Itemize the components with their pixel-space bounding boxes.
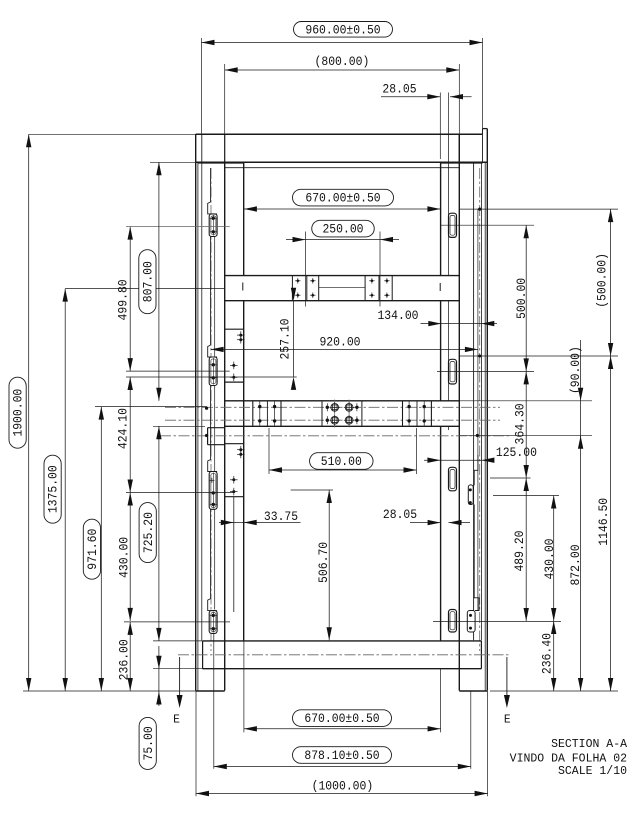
svg-text:510.00: 510.00 xyxy=(321,454,362,469)
svg-text:134.00: 134.00 xyxy=(377,308,418,323)
dimension 430.00 right xyxy=(553,496,555,622)
right post line x=448.5 xyxy=(448,134,450,275)
extension lines top xyxy=(201,38,203,134)
dimension 971.60 xyxy=(100,407,102,691)
extension lines bottom xyxy=(195,691,197,796)
dimension 28.05 top xyxy=(381,96,440,98)
svg-text:499.80: 499.80 xyxy=(116,279,131,320)
left post bracket 4 xyxy=(210,509,212,598)
dimension 236.00 xyxy=(129,622,131,691)
svg-text:(800.00): (800.00) xyxy=(315,54,370,69)
dimension (1000.00) xyxy=(196,793,488,795)
dimension 236.40 xyxy=(553,621,555,691)
dimension 250.00 xyxy=(286,239,399,241)
svg-text:500.00: 500.00 xyxy=(514,278,529,319)
left post outer edge xyxy=(195,134,197,690)
left post line x=201.8 xyxy=(201,162,203,640)
svg-text:VINDO DA FOLHA 02: VINDO DA FOLHA 02 xyxy=(510,752,627,765)
right post line x=477.9 xyxy=(477,209,479,610)
right post bracket upper xyxy=(473,455,478,485)
svg-text:424.10: 424.10 xyxy=(116,408,131,449)
top beam outline xyxy=(196,133,483,135)
right post center line dash-dot xyxy=(479,168,481,651)
dimension 424.10 xyxy=(129,377,131,493)
left post inner edge x=224.7 xyxy=(224,162,226,690)
svg-text:872.00: 872.00 xyxy=(568,544,583,585)
dimension 960.00 +/-0.50 xyxy=(202,42,483,44)
upper cross member xyxy=(225,275,460,277)
top beam inner verticals xyxy=(201,134,203,162)
svg-text:430.00: 430.00 xyxy=(116,537,131,578)
dimension 364.30 xyxy=(525,371,527,478)
dimension 872.00 xyxy=(580,436,582,691)
middle member junction dots xyxy=(326,406,329,409)
svg-text:920.00: 920.00 xyxy=(319,335,360,350)
middle member circled bolts xyxy=(334,400,336,428)
dimension (800.00) xyxy=(225,69,460,71)
dimension 725.20 xyxy=(158,426,160,641)
svg-text:670.00±0.50: 670.00±0.50 xyxy=(304,711,379,726)
second center line dash-dot below member xyxy=(160,435,509,437)
dimension 125.00 xyxy=(424,459,494,461)
right foot bottom xyxy=(459,690,487,692)
left foot bottom xyxy=(196,690,225,692)
dimension 807.00 xyxy=(158,162,160,400)
left post flange x=243.7 segments xyxy=(243,162,245,275)
svg-text:236.00: 236.00 xyxy=(116,639,131,680)
left post inner line below box B xyxy=(233,497,235,612)
right post bracket lower xyxy=(474,505,479,611)
dimension 500.00 right xyxy=(525,225,527,371)
upper member bolt crosses xyxy=(295,280,300,282)
svg-text:28.05: 28.05 xyxy=(382,81,416,96)
right post flange x=440.6 segments xyxy=(440,162,442,275)
svg-text:(90.00): (90.00) xyxy=(568,346,583,394)
right post line x=473.6 xyxy=(473,162,475,640)
right post slot 1 xyxy=(449,213,457,237)
left extension lines xyxy=(29,133,196,135)
dimension 878.10 xyxy=(214,766,471,768)
dimension 670.00 bottom xyxy=(244,728,441,730)
dimension 920.00 xyxy=(211,348,478,350)
svg-text:725.20: 725.20 xyxy=(141,512,156,553)
left post center line dash-dot xyxy=(210,168,212,651)
dimension 430.00 left xyxy=(129,493,131,621)
upper member end ticks xyxy=(242,283,244,291)
svg-text:SECTION A-A: SECTION A-A xyxy=(551,738,627,751)
right post slot 4 xyxy=(449,610,457,633)
middle member right bolt plate xyxy=(402,401,404,427)
dimension 489.20 xyxy=(525,478,527,621)
right post line x=481.4 xyxy=(480,162,482,641)
svg-text:28.05: 28.05 xyxy=(383,507,417,522)
top beam flange lines xyxy=(198,163,244,165)
left post bracket 2 xyxy=(210,237,212,346)
svg-text:125.00: 125.00 xyxy=(496,445,537,460)
right post outer edge xyxy=(486,129,488,691)
middle cross member xyxy=(225,400,460,402)
svg-text:960.00±0.50: 960.00±0.50 xyxy=(305,22,380,37)
left post connection box A xyxy=(225,328,244,330)
svg-text:489.20: 489.20 xyxy=(512,530,527,571)
right post inner edge x=459.3 xyxy=(458,134,460,690)
dimension (500.00) xyxy=(610,209,612,356)
dimension 33.75 xyxy=(219,522,301,524)
dimension 1375.00 xyxy=(64,289,66,691)
svg-text:(500.00): (500.00) xyxy=(594,253,609,308)
dimension 506.70 xyxy=(328,490,330,640)
right post slot 3 xyxy=(449,467,457,491)
svg-text:SCALE 1/10: SCALE 1/10 xyxy=(558,765,627,778)
dimension (90.00) xyxy=(580,340,582,449)
svg-text:506.70: 506.70 xyxy=(316,542,331,583)
right extension lines xyxy=(460,208,619,210)
svg-text:1375.00: 1375.00 xyxy=(46,465,61,513)
svg-text:E: E xyxy=(173,713,180,727)
left post connection box B xyxy=(225,443,244,445)
dimension 75.00 xyxy=(158,646,160,706)
svg-text:878.10±0.50: 878.10±0.50 xyxy=(304,748,379,763)
dimension 134.00 xyxy=(421,323,498,325)
dimension 1900.00 xyxy=(28,134,30,691)
svg-text:1900.00: 1900.00 xyxy=(11,389,26,437)
middle member bolt row center lines dash-dot xyxy=(165,406,500,408)
top beam inner lip xyxy=(225,167,460,169)
middle member left bolt plate xyxy=(252,401,254,427)
svg-text:257.10: 257.10 xyxy=(278,318,293,359)
svg-text:33.75: 33.75 xyxy=(264,509,298,524)
dimension 257.10 xyxy=(293,301,295,377)
upper member left bolt plate xyxy=(291,276,293,301)
svg-text:971.60: 971.60 xyxy=(85,529,100,570)
upper member mid line xyxy=(319,287,365,289)
dimension 670.00 top xyxy=(244,208,441,210)
dimension 28.05 lower xyxy=(410,522,441,524)
junction dots xyxy=(205,407,208,410)
svg-text:250.00: 250.00 xyxy=(322,222,363,237)
dimension 510.00 xyxy=(269,469,417,471)
right post slot 2 xyxy=(449,359,457,384)
svg-text:236.40: 236.40 xyxy=(539,633,554,674)
dimension 1146.50 xyxy=(610,356,612,691)
small box below-left of middle member xyxy=(208,427,225,429)
upper member right bolt plate xyxy=(364,276,366,301)
left post bracket 3 xyxy=(210,385,212,460)
svg-text:75.00: 75.00 xyxy=(141,726,156,760)
section cut marker E left xyxy=(179,657,181,697)
svg-text:670.00±0.50: 670.00±0.50 xyxy=(305,191,380,206)
dimension 499.80 xyxy=(129,227,131,372)
bottom beam center line dash-dot xyxy=(178,654,510,656)
svg-text:364.30: 364.30 xyxy=(512,403,527,444)
left post bracket 1 xyxy=(210,168,212,202)
svg-text:1146.50: 1146.50 xyxy=(596,498,611,546)
section cut marker E right xyxy=(506,657,508,697)
svg-text:430.00: 430.00 xyxy=(542,538,557,579)
svg-text:807.00: 807.00 xyxy=(140,261,155,302)
left post bracket rail xyxy=(214,237,216,610)
bottom beam xyxy=(203,640,482,642)
svg-text:(1000.00): (1000.00) xyxy=(312,778,374,793)
middle member center bolt plate xyxy=(321,401,323,427)
svg-text:E: E xyxy=(504,713,511,727)
